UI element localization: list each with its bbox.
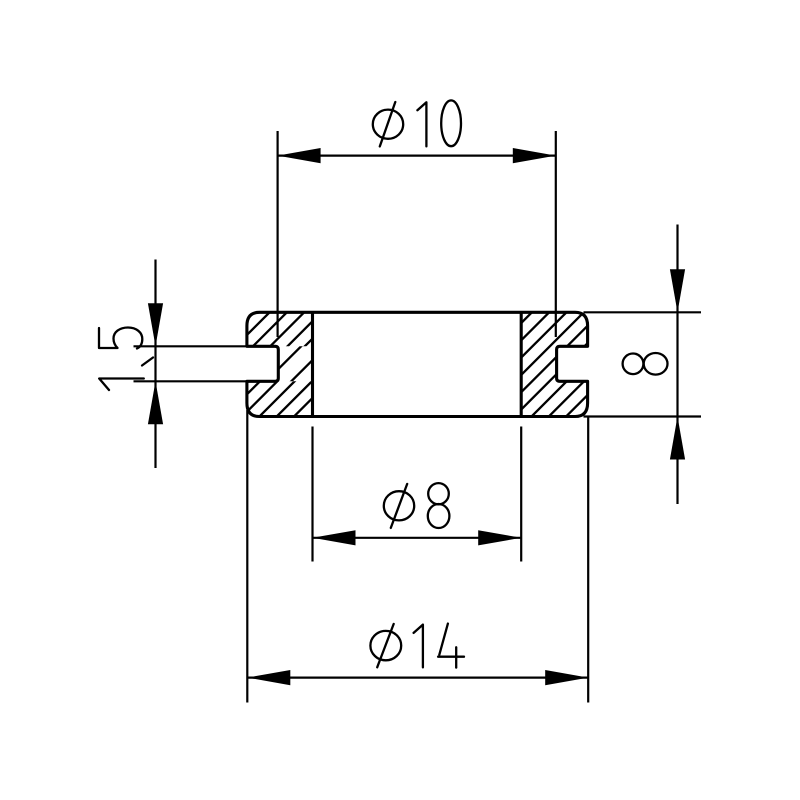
dimension 8: dimension line <box>676 225 678 505</box>
dimension D14: label text <box>370 624 464 668</box>
dimension 8: arrow bottom <box>670 417 685 460</box>
dimension D10: arrow left <box>278 148 321 163</box>
dimension 1,5: extension line bottom (groove lower edge) <box>134 380 247 382</box>
dimension D8: extension line right <box>520 427 522 562</box>
dimension D10: label text <box>373 100 461 146</box>
hole wall left <box>311 312 314 416</box>
hatch left section face (middle band) <box>152 285 413 445</box>
dimension D14: extension line right <box>587 417 589 703</box>
dimension 1,5: dimension line <box>154 260 156 469</box>
hole wall right <box>520 312 523 416</box>
dimension D8: dimension line <box>313 537 522 539</box>
dimension 1,5: label text (rotated) <box>99 328 153 391</box>
dimension 1,5: extension line top (groove upper edge) <box>134 345 247 347</box>
dimension 1,5: arrow bottom <box>148 381 163 424</box>
dimension D14: arrow right <box>545 670 588 685</box>
hatch left section face (upper band) <box>102 285 452 445</box>
dimension 8: extension line bottom <box>584 415 702 417</box>
hatch right section face <box>347 285 732 445</box>
dimension 8: extension line top <box>584 311 702 313</box>
dimension D8: arrow right <box>478 530 521 545</box>
dimension D8: arrow left <box>313 530 356 545</box>
dimension D14: arrow left <box>247 670 290 685</box>
dimension D10: extension line right <box>555 131 557 337</box>
dimension 8: label text (rotated digit 8) <box>623 353 668 375</box>
dimension D14: extension line left <box>246 410 248 703</box>
dimension D10: arrow right <box>513 148 556 163</box>
dimension 1,5: arrow top <box>148 303 163 346</box>
dimension D10: extension line left <box>277 131 279 337</box>
grommet body outline <box>247 312 588 416</box>
hatch left section face (lower band) <box>110 285 460 445</box>
dimension D8: label text <box>384 483 450 528</box>
dimension 8: arrow top <box>670 269 685 312</box>
dimension D8: extension line left <box>311 427 313 562</box>
dimension D14: dimension line <box>247 676 588 678</box>
dimension D10: dimension line <box>278 155 556 157</box>
